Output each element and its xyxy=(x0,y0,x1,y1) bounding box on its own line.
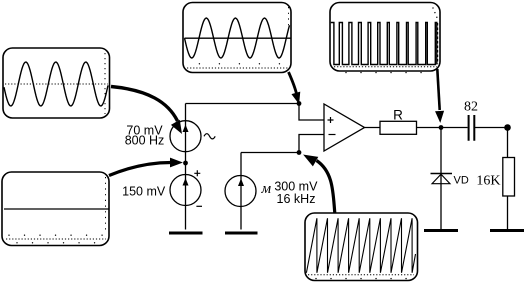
wire: capacitor to load junction xyxy=(475,127,508,129)
wire: vertical through G1 and G2 to ground xyxy=(185,104,187,230)
wire: - input rise and stub xyxy=(299,135,324,153)
node: output junction xyxy=(439,125,444,130)
source G3: 300 mV 16 kHz sawtooth generator xyxy=(225,176,256,207)
pointer arrow from display E to op-amp - input node xyxy=(304,155,335,213)
sine symbol ~ of G1 xyxy=(204,134,215,139)
svg-text:R: R xyxy=(393,108,403,123)
wire: load branch vertical xyxy=(507,128,509,230)
wire: G3 to - input junction xyxy=(241,152,299,154)
ground under 16K xyxy=(490,229,524,232)
polarity + of G2 xyxy=(194,170,200,176)
svg-text:800 Hz: 800 Hz xyxy=(125,134,165,148)
wire: + input drop and stub xyxy=(299,104,324,121)
ground under G3 xyxy=(225,232,258,235)
wire: G1 top to +input junction (horizontal) xyxy=(186,103,300,105)
diode VD xyxy=(431,174,453,184)
node: junction between G1 and G2 xyxy=(183,161,188,166)
resistor R xyxy=(380,121,417,134)
ground under diode VD xyxy=(424,229,458,232)
ground under G2 xyxy=(169,232,203,235)
pointer arrow from display D to output node xyxy=(436,69,444,122)
svg-text:150 mV: 150 mV xyxy=(122,185,166,199)
oscillogram display E (16 kHz sawtooth at op-amp - input) xyxy=(305,213,418,281)
pointer arrow from display A to source G1 xyxy=(111,87,181,133)
svg-text:16K: 16K xyxy=(476,173,500,188)
pointer arrow from display C to op-amp + input node xyxy=(289,72,300,103)
wire: diode branch vertical xyxy=(440,128,442,230)
node: + input junction xyxy=(297,101,302,106)
capacitor C1 plates xyxy=(469,115,475,141)
oscillogram display D (pulse train at output node) xyxy=(330,3,440,73)
source G2: 150 mV DC source xyxy=(170,175,201,206)
wire: vertical through G3 to ground xyxy=(240,153,242,230)
pointer arrow from display B to node between G1 and G2 xyxy=(109,158,182,175)
polarity - of G2 xyxy=(196,205,202,207)
svg-text:VD: VD xyxy=(454,175,469,187)
node: - input junction xyxy=(297,150,302,155)
node: load junction xyxy=(504,124,511,131)
svg-text:82: 82 xyxy=(464,100,478,115)
oscillogram display C (sine with DC offset at op-amp + input) xyxy=(183,3,291,73)
svg-text:м: м xyxy=(261,181,272,197)
wire: op-amp output to capacitor xyxy=(365,127,468,129)
resistor 16K xyxy=(503,158,515,197)
oscillogram display A (70 mV 800 Hz sine) xyxy=(3,48,110,118)
oscillogram display B (150 mV DC level) xyxy=(2,172,109,246)
op-amp U1 xyxy=(324,104,365,151)
svg-text:16 kHz: 16 kHz xyxy=(277,192,316,206)
source G1: 70 mV 800 Hz sine generator xyxy=(170,121,201,152)
